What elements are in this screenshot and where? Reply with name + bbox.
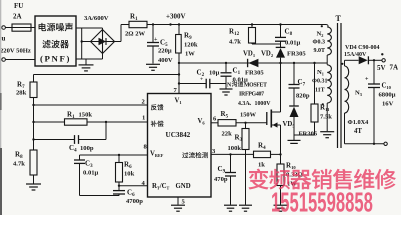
svg-text:VD4 C90-004: VD4 C90-004 [345,45,380,51]
svg-text:0.01μ: 0.01μ [285,40,301,47]
svg-text:22k: 22k [222,130,233,137]
svg-text:UC3842: UC3842 [166,131,191,139]
svg-text:R3: R3 [235,134,243,144]
svg-text:5: 5 [182,199,186,206]
svg-text:5V: 5V [377,64,386,72]
svg-text:400V: 400V [158,57,173,64]
svg-text:220μ: 220μ [158,48,172,55]
svg-text:R8: R8 [15,151,23,161]
svg-text:4T: 4T [354,128,362,135]
svg-text:FR305: FR305 [287,51,306,58]
svg-text:C3: C3 [85,160,93,170]
svg-text:R10: R10 [286,162,296,171]
svg-text:C6: C6 [127,189,135,199]
svg-text:R9: R9 [184,32,192,42]
svg-text:15A/40V: 15A/40V [344,52,367,58]
svg-text:VD2: VD2 [261,51,274,59]
svg-text:1: 1 [142,115,145,122]
svg-text:N1: N1 [317,69,324,77]
svg-text:N: N [227,82,232,88]
svg-text:R6: R6 [124,161,132,171]
svg-text:R5: R5 [221,110,229,120]
svg-text:4.7k: 4.7k [13,161,25,168]
svg-text:9.0T: 9.0T [314,48,326,54]
svg-text:4.7k: 4.7k [229,39,241,46]
svg-text:C9: C9 [218,165,226,175]
svg-text:V1: V1 [175,98,183,106]
svg-text:IRFPG407: IRFPG407 [239,92,264,98]
svg-text:7A: 7A [390,64,399,72]
svg-text:VD1: VD1 [243,51,256,59]
svg-text:3A/600V: 3A/600V [84,15,109,22]
svg-text:150k: 150k [79,112,93,119]
svg-text:0.01μ: 0.01μ [83,170,99,177]
svg-text:1W: 1W [185,51,195,58]
svg-text:1000V: 1000V [255,101,272,107]
svg-text:2: 2 [142,99,146,106]
svg-text:2A: 2A [13,13,22,21]
svg-text:16V: 16V [382,101,394,108]
svg-text:15515598858: 15515598858 [271,186,373,215]
svg-text:150W: 150W [240,112,257,119]
svg-text:470p: 470p [214,176,228,183]
svg-text:7.5k: 7.5k [320,114,332,121]
svg-text:10k: 10k [124,171,135,178]
svg-text:Φ0.3: Φ0.3 [313,40,325,46]
svg-text:C4: C4 [69,144,77,154]
svg-text:6: 6 [213,115,217,122]
svg-text:100p: 100p [80,145,94,152]
svg-text:R11: R11 [320,104,330,113]
svg-text:C7: C7 [298,78,306,88]
svg-text:1k: 1k [258,162,265,169]
svg-text:Φ0.31: Φ0.31 [312,79,327,85]
svg-text:FR305: FR305 [245,70,264,77]
svg-text:T: T [336,14,342,23]
svg-text:10μ: 10μ [209,70,220,77]
svg-text:V6: V6 [198,118,206,126]
svg-text:+300V: +300V [166,13,186,21]
svg-text:+: + [365,77,369,83]
svg-text:4700p: 4700p [126,198,143,205]
svg-text:(PNF): (PNF) [40,54,71,64]
svg-text:11T: 11T [315,88,325,94]
svg-text:28k: 28k [16,90,27,97]
svg-text:6800μ: 6800μ [379,92,396,99]
svg-text:R4: R4 [258,142,266,152]
svg-text:C8: C8 [285,28,293,38]
svg-text:R1: R1 [130,13,138,23]
svg-text:u: u [2,35,6,43]
svg-text:N3: N3 [355,90,362,98]
svg-text:C10: C10 [382,83,392,91]
svg-text:R12: R12 [229,28,240,38]
svg-text:RT/CT: RT/CT [152,183,170,191]
svg-text:C1: C1 [233,67,241,77]
svg-text:4.3A: 4.3A [238,101,250,107]
svg-text:100k: 100k [228,145,242,152]
svg-text:N2: N2 [317,31,324,39]
svg-text:820p: 820p [296,93,310,100]
svg-text:2Ω 2W: 2Ω 2W [125,31,146,38]
svg-text:+: + [200,77,203,83]
svg-text:FU: FU [14,2,23,10]
svg-text:120k: 120k [184,42,198,49]
svg-text:VD5: VD5 [283,121,296,129]
svg-text:MOSFET: MOSFET [244,82,267,88]
svg-text:Φ1.0X4: Φ1.0X4 [348,119,370,126]
svg-text:220V 50Hz: 220V 50Hz [0,48,31,55]
svg-text:GND: GND [176,183,191,190]
svg-text:VREF: VREF [150,150,164,158]
